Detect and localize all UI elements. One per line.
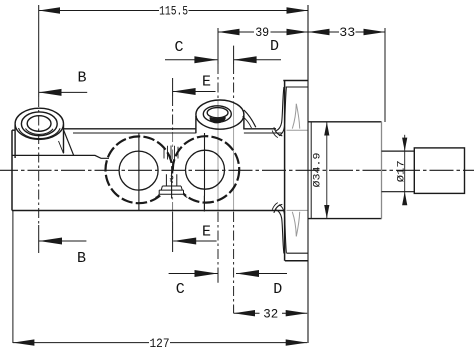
- port 2 lower boss edge: [203, 196, 205, 212]
- reservoir clip bracket: [159, 174, 184, 195]
- svg-text:33: 33: [339, 25, 355, 40]
- boss 1 sides: [15, 125, 63, 159]
- svg-text:32: 32: [263, 306, 278, 321]
- svg-text:E: E: [202, 224, 211, 241]
- upper gusset rib band: [276, 87, 284, 131]
- dimension 32: [234, 310, 308, 316]
- lower gusset rib band: [276, 210, 284, 254]
- boss 1 rim arc: [19, 128, 61, 139]
- upper gusset hook: [274, 127, 282, 136]
- callout E top: [173, 88, 216, 95]
- svg-text:B: B: [77, 250, 86, 267]
- boss 1 shoulder: [64, 130, 74, 155]
- dimension 127: [13, 339, 307, 345]
- boss 1 inner shade arc: [26, 129, 54, 135]
- reservoir port 1 outer circle: [105, 136, 172, 203]
- flange bottom edges: [287, 252, 308, 254]
- reservoir port 2 inner circle: [186, 150, 225, 189]
- vertical centerline D: [233, 46, 235, 314]
- far-side gusset arches: [292, 104, 296, 129]
- port 2 vertical centerline: [204, 133, 206, 196]
- callout B top: [39, 89, 87, 96]
- callout D top: [234, 56, 281, 63]
- svg-text:127: 127: [150, 336, 170, 351]
- barrel waist line: [12, 155, 109, 158]
- svg-text:D: D: [273, 281, 282, 298]
- svg-text:Ø34.9: Ø34.9: [311, 153, 323, 188]
- main horizontal centerline: [0, 169, 474, 171]
- svg-text:Ø17: Ø17: [396, 160, 408, 182]
- barrel top edges: [64, 128, 277, 130]
- dimension 33: [308, 29, 385, 35]
- boss 2 bore shadow: [210, 117, 226, 124]
- clip centerline dark segment: [171, 174, 173, 199]
- vertical centerline C (port 2 axis): [217, 28, 219, 283]
- lower gusset hook: [274, 204, 282, 213]
- svg-text:C: C: [176, 281, 185, 298]
- port boss 2 rings: [196, 100, 244, 129]
- vertical centerline E (clip axis): [172, 78, 174, 252]
- svg-text:115.5: 115.5: [159, 4, 188, 19]
- web between ports: [164, 146, 178, 160]
- dia 34.9 dimension: [324, 122, 329, 219]
- body bottom edge: [12, 210, 284, 212]
- boss 2 shoulder: [244, 110, 256, 127]
- callout B bottom: [39, 238, 86, 245]
- svg-text:B: B: [77, 70, 86, 87]
- left block top stub: [12, 129, 15, 131]
- dia 17 dimension: [402, 135, 407, 205]
- vertical centerline B (port 1 axis): [38, 5, 40, 253]
- reservoir port 1 inner circle: [119, 151, 158, 190]
- extension line 33 right (x=385): [384, 28, 386, 122]
- svg-text:E: E: [202, 74, 211, 91]
- callout C top: [165, 56, 217, 63]
- pushrod shaft: [382, 151, 415, 192]
- callout E bottom: [173, 238, 216, 245]
- extension line right (x=308): [307, 5, 309, 343]
- flange left edge: [284, 81, 286, 261]
- port boss 1 rings: [15, 108, 63, 139]
- end cap: [414, 148, 464, 194]
- reservoir port 2 outer circle: [173, 136, 239, 202]
- svg-text:C: C: [174, 39, 183, 56]
- left block left edge: [11, 130, 13, 210]
- flange top edges: [283, 80, 308, 82]
- dimension 39: [218, 29, 308, 35]
- dimension 115.5: [39, 7, 308, 13]
- svg-text:D: D: [270, 38, 279, 55]
- extension line left (x=12.9): [12, 211, 14, 344]
- big cylinder (flange barrel): [308, 122, 382, 219]
- port 1 vertical centerline: [138, 133, 140, 211]
- hidden barrel lines behind flange (gray): [287, 104, 308, 237]
- callout D bottom: [236, 270, 287, 277]
- svg-text:39: 39: [255, 25, 269, 40]
- boss 2 sides: [196, 116, 244, 133]
- callout C bottom: [169, 270, 218, 277]
